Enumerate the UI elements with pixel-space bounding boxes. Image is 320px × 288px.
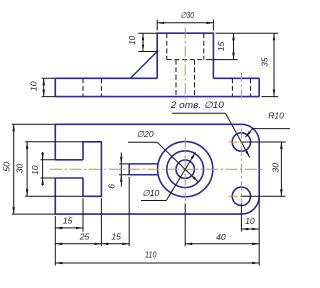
dimension d30 extension lines (157, 20, 213, 31)
svg-text:40: 40 (216, 232, 226, 242)
dimension 15 slot depth extensions (55, 198, 83, 231)
dimension 10 slot extensions (41, 160, 56, 178)
svg-text:10: 10 (28, 81, 38, 91)
dimension 6 line with outside arrows (120, 153, 122, 187)
svg-text:10: 10 (30, 165, 40, 175)
front view: boss centerline (184, 28, 186, 101)
front view: hidden right hole left edge (231, 78, 233, 96)
svg-text:2 отв. ∅10: 2 отв. ∅10 (170, 100, 225, 110)
plan view: slot narrow part width 10 (55, 160, 83, 178)
front view: hidden right hole right edge (250, 78, 252, 96)
svg-text:15: 15 (111, 231, 121, 241)
dimension 30 left extensions (25, 142, 83, 197)
plan view: boss vertical centerline (184, 137, 186, 202)
svg-text:∅20: ∅20 (136, 129, 153, 139)
svg-text:50: 50 (1, 162, 11, 172)
plan view: rib edges width 6 (129, 164, 158, 175)
dimension 15 rib extensions (128, 177, 130, 246)
front view: hidden counterbore d20 left (166, 33, 168, 59)
dimension 35 extension line bottom (262, 96, 279, 98)
svg-text:30: 30 (270, 163, 280, 173)
dimension 50 extensions (12, 124, 56, 214)
label 2 holes d10 leader (226, 113, 250, 157)
dimension 10 base extensions (42, 78, 56, 96)
dimension 6 extensions (119, 164, 129, 175)
dimension 15 rib line (101, 243, 129, 245)
dimension 30 right extensions (241, 142, 285, 196)
plan view: main horizontal centerline (50, 168, 264, 170)
dimension 15 slot depth line (55, 227, 83, 229)
front view: hidden counterbore d20 right (203, 33, 205, 59)
dimension 40 extensions (185, 198, 259, 265)
svg-text:35: 35 (260, 57, 270, 67)
label d10 leader (166, 152, 195, 200)
label d20 leader (157, 142, 198, 182)
plan view: boss circle d30 (158, 142, 213, 197)
dimension 10 base line (43, 78, 45, 96)
plan view: bottom right hole d10 (232, 187, 250, 205)
svg-text:110: 110 (145, 250, 157, 260)
plan view: top right hole d10 (232, 133, 250, 151)
dimension d30 line (157, 22, 213, 24)
front view: rib slanted edge (130, 52, 157, 79)
dimension 15 counterbore line (233, 33, 235, 59)
front view: right hole centerline (240, 73, 242, 101)
dimension 50 line (13, 124, 15, 214)
dimension 10 rib extension lines (138, 33, 157, 51)
front view: hidden hole d10 left (175, 60, 177, 97)
plan view: plate outline with rounded right corners (55, 124, 259, 214)
front view: base plate outline (55, 78, 259, 96)
dimension 10 right hole line (241, 228, 259, 230)
dimension 10 right hole extension (240, 204, 242, 232)
plan view: right holes vertical centerline (240, 129, 242, 204)
dimension 110 extension left (54, 246, 56, 265)
dimension 10 slot line with outside arrows (42, 152, 44, 186)
svg-text:10: 10 (245, 216, 255, 226)
svg-text:6: 6 (106, 184, 116, 189)
plan view: hole circle d10 (176, 160, 194, 178)
svg-text:15: 15 (63, 215, 73, 225)
label R10 leader arrow segment (245, 129, 252, 138)
dimension 30 left line (26, 142, 28, 197)
dimension 25 line (55, 243, 101, 245)
dimension 10 rib line (142, 33, 144, 51)
plan view: bottom hole horizontal centerline (229, 195, 248, 197)
dimension 25 extensions (55, 198, 101, 246)
label R10 shelf (253, 128, 290, 130)
dimension 110 line (55, 262, 259, 264)
plan view: slot wide pocket width 30 (83, 142, 101, 197)
plan view: counterbore circle d20 (167, 151, 204, 188)
front view: boss outline (157, 33, 213, 78)
front view: hidden hole d10 right (194, 60, 196, 97)
dimension 15 counterbore extensions (206, 33, 278, 59)
front view: hidden counterbore bottom (167, 59, 204, 61)
label 2 holes d10 shelf (172, 112, 226, 114)
dimension 35 line (273, 33, 275, 96)
svg-text:∅30: ∅30 (181, 11, 195, 20)
svg-text:15: 15 (216, 41, 226, 51)
label d20 shelf (128, 141, 157, 143)
dimension 40 line (185, 243, 259, 245)
svg-text:R10: R10 (268, 111, 284, 121)
dimension 30 right line (280, 142, 282, 196)
label d10 shelf (141, 200, 166, 202)
svg-text:10: 10 (128, 35, 137, 44)
svg-text:25: 25 (79, 231, 90, 241)
svg-text:30: 30 (14, 164, 24, 174)
svg-text:∅10: ∅10 (142, 188, 159, 198)
front view: hidden slot edge x=15 (82, 78, 84, 96)
front view: hidden slot edge x=25 (100, 78, 102, 96)
plan view: top hole horizontal centerline (229, 141, 248, 143)
